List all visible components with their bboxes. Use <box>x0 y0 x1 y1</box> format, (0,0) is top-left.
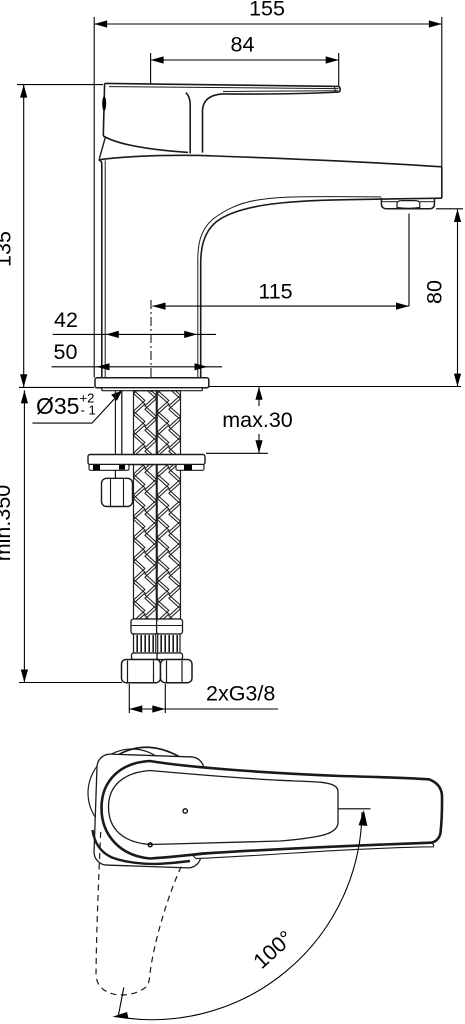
svg-text:- 1: - 1 <box>81 403 96 418</box>
dimension min.350 (hose length) <box>0 390 122 682</box>
svg-text:42: 42 <box>54 308 78 332</box>
fixing stud <box>114 391 116 479</box>
escutcheon square (top view) <box>94 754 205 869</box>
handle base bottom <box>103 136 188 152</box>
handle outline (top view) <box>102 761 443 859</box>
svg-text:2xG3/8: 2xG3/8 <box>206 682 275 706</box>
mounting washer plate <box>88 455 205 471</box>
handle body left edge <box>103 83 104 136</box>
hose crimp sleeves <box>134 634 181 653</box>
svg-text:100°: 100° <box>249 926 298 974</box>
svg-text:84: 84 <box>231 33 255 57</box>
svg-text:Ø35: Ø35 <box>36 393 79 419</box>
counter reference line right <box>209 386 461 388</box>
centerline <box>150 300 152 392</box>
dimension 84 (lever reach) <box>151 33 339 87</box>
flexible supply hoses <box>134 391 181 619</box>
handle inner face line (top view) <box>109 771 339 845</box>
dimension 50 (base width) <box>52 340 222 370</box>
label diameter 35 +2/-1 <box>32 390 122 423</box>
arc arrow top <box>359 810 368 826</box>
body shoulder curve (top view) <box>93 830 191 864</box>
counter reference line left <box>19 386 94 388</box>
dimension 155 (overall length) <box>94 0 442 378</box>
spout underside outer + pillar right outer <box>201 198 442 377</box>
dimension 42 (body width) <box>53 308 216 338</box>
spout right edge <box>441 167 443 198</box>
arc arrow bottom <box>113 1012 129 1019</box>
svg-text:min.350: min.350 <box>0 485 15 562</box>
base circle (top view) <box>88 749 176 837</box>
pillar left inner <box>104 160 106 377</box>
lever handle (side view) <box>99 83 340 158</box>
svg-text:80: 80 <box>423 280 447 304</box>
arc reference line <box>339 808 371 810</box>
threaded shank edge <box>121 391 123 455</box>
svg-text:50: 50 <box>54 340 78 364</box>
neck left edge <box>99 138 105 159</box>
G3/8 hex nuts <box>122 660 193 683</box>
dimension 2xG3/8 <box>129 682 278 714</box>
hose ferrules <box>131 619 183 634</box>
fixing nut <box>102 478 133 506</box>
svg-text:115: 115 <box>258 280 292 304</box>
handle dot 1 <box>183 809 187 813</box>
base flange <box>95 378 209 391</box>
spout sliver (top view) <box>193 842 434 858</box>
pillar left outer <box>99 160 102 378</box>
dimension 135 (height) <box>0 85 103 388</box>
svg-text:135: 135 <box>0 231 16 267</box>
arc end tick <box>118 988 124 1018</box>
100 degree swing arc <box>116 812 363 1020</box>
dimension 80 (outlet height) <box>423 209 464 387</box>
dimension max.30 (deck thickness) <box>206 387 293 454</box>
body bulge arc (top view) <box>114 747 179 757</box>
body/spout top edge <box>99 155 442 167</box>
lever pivot pin <box>102 96 106 111</box>
svg-text:max.30: max.30 <box>222 408 293 432</box>
dimension 115 (spout reach) <box>153 214 410 310</box>
hose collars <box>132 653 183 660</box>
aerator outlet <box>381 198 434 209</box>
faucet body and spout <box>99 155 442 377</box>
spout underside inner + pillar right inner <box>198 197 381 378</box>
rotated handle hidden outline (dashed) <box>96 832 182 995</box>
handle dot 2 <box>148 843 152 847</box>
svg-text:155: 155 <box>249 0 285 21</box>
lever support arm <box>186 93 190 154</box>
